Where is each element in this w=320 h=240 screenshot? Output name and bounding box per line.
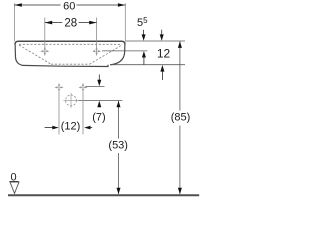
svg-text:12: 12: [157, 47, 171, 61]
svg-text:55: 55: [137, 16, 148, 29]
svg-text:(7): (7): [92, 111, 105, 123]
svg-text:(85): (85): [171, 111, 191, 123]
svg-text:(53): (53): [108, 139, 128, 151]
svg-text:28: 28: [64, 18, 77, 30]
svg-text:60: 60: [63, 0, 75, 12]
svg-text:(12): (12): [61, 121, 81, 133]
